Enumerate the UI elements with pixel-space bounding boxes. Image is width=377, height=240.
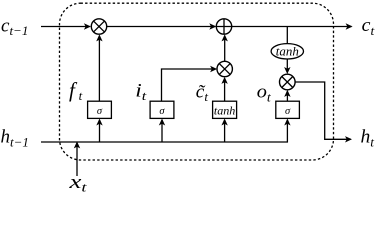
wire branch up to i_t box [161, 120, 163, 142]
wire output multiply to h_t output [295, 82, 351, 139]
wire f_t sigma box up to forget multiply [98, 36, 100, 101]
sigma box o_t [276, 101, 300, 118]
LSTM cell dashed boundary [60, 3, 334, 160]
sigma box f_t [88, 101, 112, 118]
wire h_{t-1} main line turning up into o_t box [41, 120, 287, 142]
wire add node to c_t output [232, 26, 352, 28]
wire tanh ellipse to output multiply [286, 59, 288, 73]
multiply node input gate [217, 61, 232, 76]
wire c-tilde tanh box up to input multiply [224, 78, 226, 101]
wire input multiply up to add node [224, 36, 226, 62]
tanh ellipse [271, 44, 303, 59]
add node [216, 19, 231, 34]
tanh box c-tilde [213, 101, 237, 118]
sigma box i_t [150, 101, 174, 118]
wire branch down to tanh ellipse [286, 27, 288, 44]
svg-text:tanh: tanh [276, 45, 299, 59]
wire x_t input up to h line [76, 143, 78, 176]
svg-text:t: t [79, 88, 83, 103]
wire branch up to c-tilde box [224, 120, 226, 142]
wire i_t sigma box up and right to input multiply [162, 69, 216, 101]
multiply node forget gate [91, 19, 106, 34]
wire forget multiply to add node [107, 26, 215, 28]
svg-text:σ: σ [159, 106, 165, 117]
wire c_{t-1} input to forget multiply [41, 26, 90, 28]
svg-text:tanh: tanh [214, 104, 236, 118]
multiply node output gate [280, 74, 296, 90]
svg-text:σ: σ [285, 106, 291, 117]
wire o_t sigma box up to output multiply [286, 91, 288, 101]
svg-text:σ: σ [97, 106, 103, 117]
wire branch up to f_t box [99, 120, 101, 142]
